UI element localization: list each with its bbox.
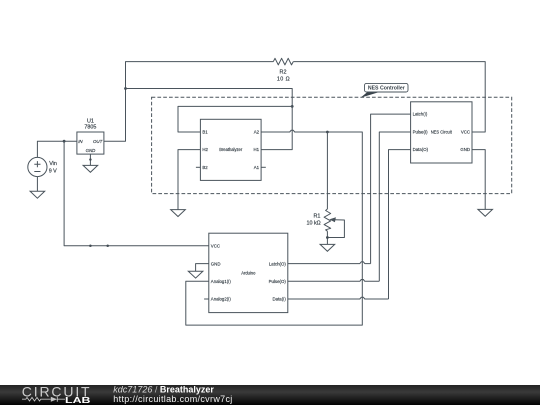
ground under R1 [320,244,335,251]
svg-text:LAB: LAB [65,395,91,405]
svg-text:kdc71726 / Breathalyzer: kdc71726 / Breathalyzer [113,384,214,394]
svg-text:9 V: 9 V [49,168,57,174]
junction A2/R1 [326,131,329,134]
junction wiper/bottom [326,236,329,239]
svg-text:Latch(O): Latch(O) [269,261,286,266]
ground at Arduino GND [188,271,203,278]
svg-text:10 Ω: 10 Ω [277,76,290,82]
svg-text:B1: B1 [202,130,208,135]
stub pin B2 [196,166,201,168]
wire Vin- to ground [36,177,38,192]
resistor R2 10 Ohm [273,58,293,82]
svg-text:GND: GND [211,261,221,266]
wire second rail to breathalyzer riser [126,89,293,107]
stub pin A1 [261,166,266,168]
svg-text:7805: 7805 [84,125,96,131]
wire NES Pulse down [379,132,410,281]
annotation flag NES Controller [361,83,409,97]
pin dot U1 GND [89,158,91,160]
IC Breathalyzer [200,119,261,180]
wire U1 GND pin [89,154,91,165]
IC NES Circuit [411,102,472,163]
ground under H2 [171,210,186,217]
svg-text:A1: A1 [254,165,260,170]
dashed enclosure box NES Controller [152,97,512,193]
wire Vin+ to U1 IN [37,141,77,157]
ground under NES GND [478,209,493,216]
svg-text:Data(I): Data(I) [273,297,287,302]
wire R2 to NES VCC [293,62,485,132]
svg-text:Analog2(I): Analog2(I) [211,297,232,302]
svg-text:H2: H2 [202,147,208,152]
wire NES GND to ground [472,150,485,210]
wire H2 to ground [178,150,200,210]
svg-text:R2: R2 [280,70,287,76]
svg-text:Pulse(I): Pulse(I) [413,130,429,135]
svg-text:R1: R1 [313,214,320,220]
regulator U1 7805 [77,118,104,154]
svg-text:OUT: OUT [93,139,103,144]
svg-text:Data(O): Data(O) [413,147,429,152]
svg-text:Pulse(O): Pulse(O) [269,279,287,284]
voltage source Vin 9 V [28,157,57,176]
svg-text:NES Circuit: NES Circuit [431,130,453,135]
wire junction down to Arduino VCC [64,141,209,246]
svg-text:10 kΩ: 10 kΩ [306,221,320,227]
svg-text:B2: B2 [202,165,208,170]
wire Arduino GND to ground [196,264,209,272]
wire junction down to R1 [326,132,328,209]
junction on OUT riser [124,87,127,90]
svg-text:http://circuitlab.com/cvrw7cj: http://circuitlab.com/cvrw7cj [113,394,232,404]
wire A2 net with hop over riser [186,130,362,325]
logo resistor-diode doodle [22,397,65,402]
IC Arduino [209,233,288,312]
ground under Vin [30,191,45,198]
ground under U1 [83,165,98,172]
svg-text:U1: U1 [87,118,94,124]
junction dot on VCC wire [89,245,92,248]
svg-text:A2: A2 [254,130,260,135]
junction B1 loop [291,105,294,108]
wire riser down to H1 [261,106,292,149]
wire Arduino Latch(O) with hop [288,262,371,264]
svg-text:Breathalyzer: Breathalyzer [219,147,243,152]
svg-text:VCC: VCC [461,130,470,135]
wire Arduino Pulse(O) with hop [288,280,380,282]
junction on IN wire [63,140,66,143]
wire NES Data down [389,150,411,299]
wire R1 bottom to ground [326,231,328,244]
wire Arduino Data(I) with hop [288,297,389,299]
svg-text:NES Controller: NES Controller [368,86,405,92]
junction dot on VCC wire [106,245,109,248]
svg-text:GND: GND [460,147,470,152]
wire NES Latch down [371,114,411,264]
svg-text:GND: GND [86,148,97,153]
svg-text:H1: H1 [254,147,260,152]
wire loop to B1 [178,106,292,132]
svg-text:Vin: Vin [49,161,57,167]
stub pin Analog2 [204,298,209,300]
svg-text:Arduino: Arduino [241,270,256,275]
potentiometer R1 10 kOhm [306,209,344,238]
svg-text:Analog1(I): Analog1(I) [211,279,232,284]
svg-text:Latch(I): Latch(I) [413,112,428,117]
wire U1 OUT up to top rail [104,62,273,142]
footer bar [0,385,540,405]
svg-text:VCC: VCC [211,244,220,249]
